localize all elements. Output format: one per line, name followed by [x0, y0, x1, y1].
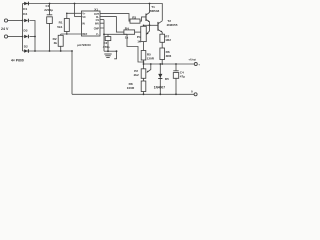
wire IC ground segment	[104, 50, 117, 52]
T2 emitter arrow	[161, 31, 163, 33]
diode D5	[158, 74, 162, 78]
svg-text:CMP: CMP	[94, 27, 100, 30]
svg-text:D5: D5	[165, 77, 169, 81]
potentiometer P2	[141, 69, 146, 79]
terminal 0	[194, 93, 197, 96]
wire ground rail left	[23, 50, 73, 52]
resistor R5	[141, 51, 146, 61]
wire C4 bottom	[175, 78, 177, 94]
T1 emitter arrow	[148, 20, 150, 22]
svg-text:47µ: 47µ	[180, 74, 185, 78]
resistor R3	[130, 19, 140, 23]
resistor R2	[58, 35, 63, 46]
potentiometer P1	[141, 26, 147, 41]
wire C1 top	[49, 4, 51, 15]
wire INV node horizontal	[104, 33, 127, 35]
wire ground segment corner hook	[114, 51, 116, 59]
resistor R7	[160, 34, 165, 42]
svg-text:1k: 1k	[125, 36, 129, 40]
earth ground symbol bars	[104, 53, 111, 56]
wire ground down to bottom rail	[71, 51, 73, 94]
svg-text:3k: 3k	[54, 41, 58, 45]
svg-text:1R2: 1R2	[165, 38, 171, 42]
wire IC pin stub VC	[75, 16, 82, 18]
wire P2 wiper from output rail	[147, 64, 151, 72]
transistor T2 base bar	[157, 22, 159, 31]
wire P2 bottom to R8	[143, 78, 145, 81]
terminal +Uout	[194, 63, 197, 66]
svg-text:1k: 1k	[137, 39, 141, 43]
wire R5 bottom to output rail	[143, 60, 145, 69]
svg-text:1N4007: 1N4007	[154, 86, 165, 90]
resistor R4	[124, 30, 135, 34]
wire IC pin stub V+	[75, 12, 82, 14]
terminal input 2	[4, 35, 7, 38]
wire left ladder line A	[22, 4, 24, 52]
svg-text:2200µ: 2200µ	[44, 8, 53, 12]
wire T1 emitter node down to P1 wiper	[146, 25, 149, 34]
capacitor C1 electrolytic body	[47, 15, 53, 24]
wire R7 to R6	[161, 42, 163, 48]
svg-text:2N3055: 2N3055	[167, 23, 178, 27]
svg-text:VC: VC	[82, 16, 86, 19]
svg-text:4× P600: 4× P600	[11, 59, 24, 63]
svg-text:INV: INV	[95, 23, 99, 26]
diode D1	[24, 2, 28, 6]
wire R1 top to V+ node	[67, 13, 75, 18]
wire D3 cathode to line B	[30, 36, 36, 38]
svg-text:D1: D1	[23, 7, 27, 11]
wire IC VC2 stub down to R4	[100, 17, 124, 32]
terminal input 1	[4, 19, 7, 22]
wire top rail	[23, 4, 163, 21]
wire R6 bottom to output rail	[161, 60, 163, 65]
svg-text:120R: 120R	[147, 57, 155, 61]
wire R2 top	[60, 34, 62, 35]
wire IC pin stub CS to bus	[100, 22, 104, 24]
resistor R6	[160, 48, 165, 60]
svg-text:2k2: 2k2	[134, 73, 139, 77]
wire line B D4 cathode down to ground rail	[30, 21, 36, 52]
wire R4 right to P1	[135, 31, 141, 33]
svg-text:R1: R1	[59, 21, 63, 25]
wire R2 bottom to ground rail	[60, 46, 62, 51]
junction node dots	[22, 20, 24, 22]
P2 wiper arrowhead	[147, 71, 149, 73]
svg-text:REF: REF	[82, 33, 87, 36]
diode D4	[24, 19, 28, 23]
diode D2	[24, 49, 28, 53]
wire IC pin stub CL to bus	[100, 19, 104, 21]
P1 wiper arrowhead	[146, 32, 148, 34]
IC X1 uA723CN box	[82, 11, 101, 36]
svg-text:470p: 470p	[103, 45, 110, 49]
wire T2 emitter to R7	[158, 30, 162, 35]
resistor R1	[64, 19, 69, 32]
transistor T1 base bar	[145, 14, 147, 22]
svg-text:X1: X1	[94, 8, 98, 12]
svg-text:100R: 100R	[127, 86, 135, 90]
wire junction stub to IC REF pin	[61, 33, 82, 35]
wire R8 bottom to bottom rail	[143, 92, 145, 95]
wire T2 collector	[158, 21, 162, 24]
wire P1 bottom to R5	[143, 42, 145, 51]
wire IC V- stub and bus down to ground segment	[100, 20, 104, 52]
svg-text:+: +	[198, 62, 200, 66]
svg-text:IN: IN	[82, 22, 85, 25]
wire C1 bottom	[49, 23, 51, 51]
wire C2 top stub	[107, 34, 109, 36]
svg-text:5k1: 5k1	[57, 25, 62, 29]
wire R3 to T1 base	[140, 17, 146, 21]
svg-text:D3: D3	[24, 28, 28, 32]
svg-text:R3: R3	[132, 16, 136, 20]
wire P1 top to T1 emitter line	[143, 25, 145, 26]
svg-text:R4: R4	[125, 26, 129, 30]
svg-text:BD548: BD548	[150, 9, 160, 13]
svg-text:D4: D4	[23, 12, 27, 16]
resistor R8	[141, 81, 146, 92]
svg-text:3R3: 3R3	[166, 54, 172, 58]
wire C4 top	[175, 64, 177, 71]
wire D5 across output	[159, 64, 161, 94]
wire T1 emitter	[146, 19, 150, 25]
capacitor C2 body	[105, 37, 111, 41]
wire output rail	[144, 63, 195, 65]
wire INV staircase to divider tap	[127, 34, 144, 62]
wire input terminal 1	[8, 20, 23, 22]
svg-text:D2: D2	[24, 44, 28, 48]
wire bottom rail	[72, 93, 194, 95]
wire IC V+ feed from rail	[74, 4, 76, 17]
svg-text:0: 0	[191, 89, 193, 93]
wire input terminal 2	[8, 36, 23, 38]
svg-text:µA723CN: µA723CN	[77, 43, 90, 47]
wire C2 bottom to ground segment	[107, 41, 109, 52]
wire T1 collector	[146, 4, 150, 16]
wire IC OUT to R3	[100, 14, 130, 22]
wire R1 bottom to junction	[66, 32, 68, 35]
svg-text:24 V: 24 V	[1, 27, 9, 31]
capacitor C4 electrolytic body	[173, 71, 178, 79]
diode D3	[24, 35, 28, 39]
svg-text:+Uout: +Uout	[188, 57, 196, 61]
wire T1 emitter T2 base line	[144, 24, 159, 26]
svg-text:CS: CS	[96, 19, 100, 22]
